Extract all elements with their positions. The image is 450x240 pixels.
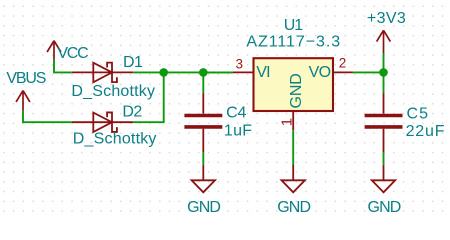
power symbol VBUS [16, 91, 30, 111]
svg-text:C5: C5 [407, 106, 430, 123]
wire junction B down to C4 [202, 72, 204, 93]
power symbol VCC [47, 41, 61, 59]
diode D2 [72, 112, 134, 132]
svg-text:U1: U1 [284, 17, 304, 34]
wire C4 to GND [202, 152, 204, 165]
power symbol +3V3 [377, 30, 391, 53]
wire D1 to U1 pin 3 [133, 71, 233, 73]
pin 3 (VI) [233, 71, 254, 73]
pin 2 (VO) [333, 71, 353, 73]
ground symbol (C5) [372, 165, 395, 193]
wire junction C down to C5 [383, 72, 385, 93]
svg-text:VCC: VCC [57, 45, 88, 62]
svg-text:1uF: 1uF [224, 123, 252, 140]
ground symbol (U1) [282, 165, 305, 192]
svg-text:1: 1 [278, 118, 295, 126]
svg-text:D_Schottky: D_Schottky [73, 131, 157, 148]
wire +3V3 down to junction C [383, 53, 385, 72]
svg-text:D_Schottky: D_Schottky [71, 83, 155, 100]
svg-text:VI: VI [256, 64, 270, 81]
svg-text:22uF: 22uF [406, 123, 446, 140]
svg-text:D2: D2 [122, 103, 142, 120]
wire C5 to GND [383, 152, 385, 165]
svg-text:2: 2 [339, 56, 347, 71]
ground symbol (C4) [192, 165, 215, 193]
diode D1 [72, 63, 133, 83]
svg-text:GND: GND [187, 199, 220, 216]
svg-text:C4: C4 [226, 104, 246, 121]
pin 1 (GND, rotated number) [292, 111, 294, 130]
junction dot A [159, 68, 168, 77]
wire VCC to D1 anode [54, 59, 72, 72]
wire VBUS to D2 anode [23, 111, 72, 122]
wire U1 pin3 left [203, 71, 233, 73]
svg-text:VO: VO [309, 64, 331, 81]
capacitor C5 [365, 93, 403, 152]
wire U1 GND pin down [292, 130, 294, 165]
svg-text:GND: GND [288, 73, 305, 108]
junction dot C [379, 68, 388, 77]
svg-text:AZ1117−3.3: AZ1117−3.3 [246, 33, 341, 50]
svg-text:+3V3: +3V3 [367, 10, 406, 27]
svg-text:D1: D1 [123, 54, 143, 71]
regulator U1 body [254, 58, 334, 111]
wire U1 pin2 to junction C [353, 71, 384, 73]
svg-text:3: 3 [236, 57, 244, 72]
capacitor C4 [184, 93, 222, 152]
svg-text:GND: GND [368, 199, 401, 216]
junction dot B [199, 68, 208, 77]
wire D2 cathode up to junction A [133, 72, 163, 122]
svg-text:VBUS: VBUS [6, 70, 45, 87]
svg-text:GND: GND [277, 199, 310, 216]
